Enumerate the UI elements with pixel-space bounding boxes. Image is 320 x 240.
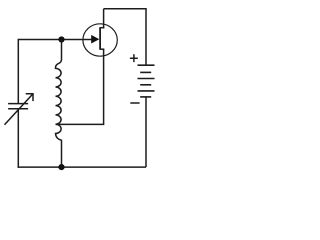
battery B1 long plate 3	[138, 90, 155, 92]
variable capacitor C1 arrow diagonal	[5, 94, 34, 125]
variable capacitor C1 top plate	[8, 103, 28, 105]
transistor Q1 gate arrow	[91, 35, 99, 44]
transistor Q1 channel bar	[99, 28, 101, 50]
battery B1 plus sign	[130, 54, 138, 62]
transistor Q1 drain jog	[100, 27, 105, 29]
wire left vertical upper	[17, 39, 19, 104]
wire top rail	[104, 8, 147, 10]
wire source vertical	[103, 49, 105, 125]
variable capacitor C1 arrow head	[26, 94, 33, 101]
wire right vertical upper	[145, 9, 147, 65]
wire right vertical lower	[145, 97, 147, 167]
battery B1 long plate 1	[138, 64, 155, 66]
wire left vertical lower	[17, 109, 19, 168]
battery B1 short plate 1	[140, 71, 151, 73]
battery B1 short plate 2	[140, 84, 151, 86]
transistor Q1 body circle	[83, 24, 117, 56]
wire bottom rail	[18, 166, 146, 168]
wire coil tap to source	[56, 123, 104, 125]
battery B1 short plate 3	[140, 96, 151, 98]
inductor L1 coil	[55, 40, 61, 168]
battery B1 long plate 2	[138, 78, 155, 80]
wire drain vertical	[103, 9, 105, 29]
transistor Q1 source jog	[100, 48, 105, 50]
battery B1 minus sign	[130, 102, 139, 104]
wire top-left rail	[18, 39, 91, 41]
node B junction dot bottom of coil	[58, 164, 64, 170]
node A junction dot top of coil	[58, 36, 64, 42]
variable capacitor C1 bottom plate	[8, 108, 28, 110]
